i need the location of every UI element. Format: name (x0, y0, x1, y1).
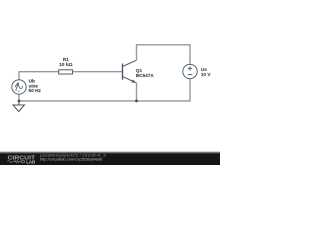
svg-text:10 kΩ: 10 kΩ (59, 62, 73, 67)
label Q1 (136, 68, 155, 78)
svg-text:50 Hz: 50 Hz (29, 88, 42, 93)
junction node left (18, 100, 21, 103)
svg-text:10 V: 10 V (201, 72, 212, 77)
voltage source V2 Us dc (183, 64, 197, 78)
ground (13, 101, 25, 112)
transistor Q1 (123, 60, 137, 83)
watermark logo (7, 155, 36, 164)
svg-text:http://circuitlab.com/c/y3528a: http://circuitlab.com/c/y3528a84a9e (40, 157, 103, 161)
label V1 (29, 79, 42, 94)
wire emitter to bottom rail (136, 83, 138, 101)
junction node emitter/bottom rail (135, 100, 138, 103)
wire bottom rail (19, 79, 190, 101)
label V2 (201, 67, 212, 77)
wire collector to top rail (137, 45, 191, 65)
wire base rail left segment (19, 72, 59, 80)
watermark text (40, 153, 106, 161)
label R1 (59, 57, 73, 67)
watermark bar (0, 152, 220, 166)
wire resistor to transistor base (73, 71, 122, 73)
svg-text:BC547A: BC547A (136, 73, 155, 78)
resistor R1 (59, 70, 73, 74)
svg-text:LAB: LAB (26, 160, 35, 165)
voltage source V1 Ub sine (12, 80, 26, 94)
